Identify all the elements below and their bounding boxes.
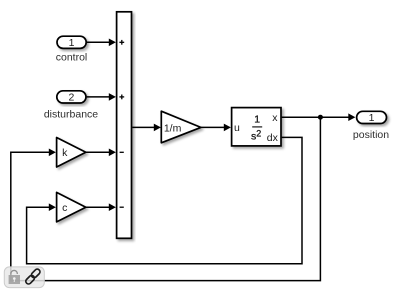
outport 1 position [357,111,387,123]
sum block [117,12,132,239]
wire gain c to sum [86,203,116,211]
gain k [57,138,86,168]
gain 1/m [161,111,201,143]
wire control to sum [87,39,116,47]
gain c [57,192,86,222]
sum sign - port 4 [120,206,124,208]
inport 1 control [57,36,86,48]
svg-text:control: control [56,52,88,64]
wire feedback x from junction to gain k input [11,117,321,280]
svg-text:1: 1 [254,114,260,126]
svg-text:1/m: 1/m [164,122,182,134]
svg-text:c: c [62,202,67,214]
wire gain 1/m to integrator [201,124,231,132]
svg-text:u: u [234,122,240,134]
wire integrator x output to outport position [282,113,356,121]
wire gain k to sum [86,149,116,157]
inport 2 disturbance [57,91,86,103]
svg-text:position: position [353,129,389,141]
sum sign + port 1 [119,40,124,45]
svg-text:x: x [272,112,278,124]
wire feedback dx from integrator to gain c input [27,137,302,263]
svg-text:k: k [62,147,68,159]
library link icon [25,268,41,285]
integrator subsystem 1/s^2 [232,108,281,146]
svg-text:disturbance: disturbance [44,109,98,121]
wire sum to gain 1/m [132,124,161,132]
sum sign + port 2 [119,95,124,100]
junction dot on x output [318,115,323,120]
svg-text:2: 2 [68,92,74,104]
sum sign - port 3 [120,151,124,153]
svg-text:dx: dx [267,132,279,144]
badge (lock + library link) [4,267,44,288]
svg-text:1: 1 [369,112,375,124]
lock icon (unlocked) [9,270,20,284]
svg-text:1: 1 [69,37,75,49]
fraction 1 over s^2 [251,114,262,143]
wire disturbance to sum [87,93,116,101]
